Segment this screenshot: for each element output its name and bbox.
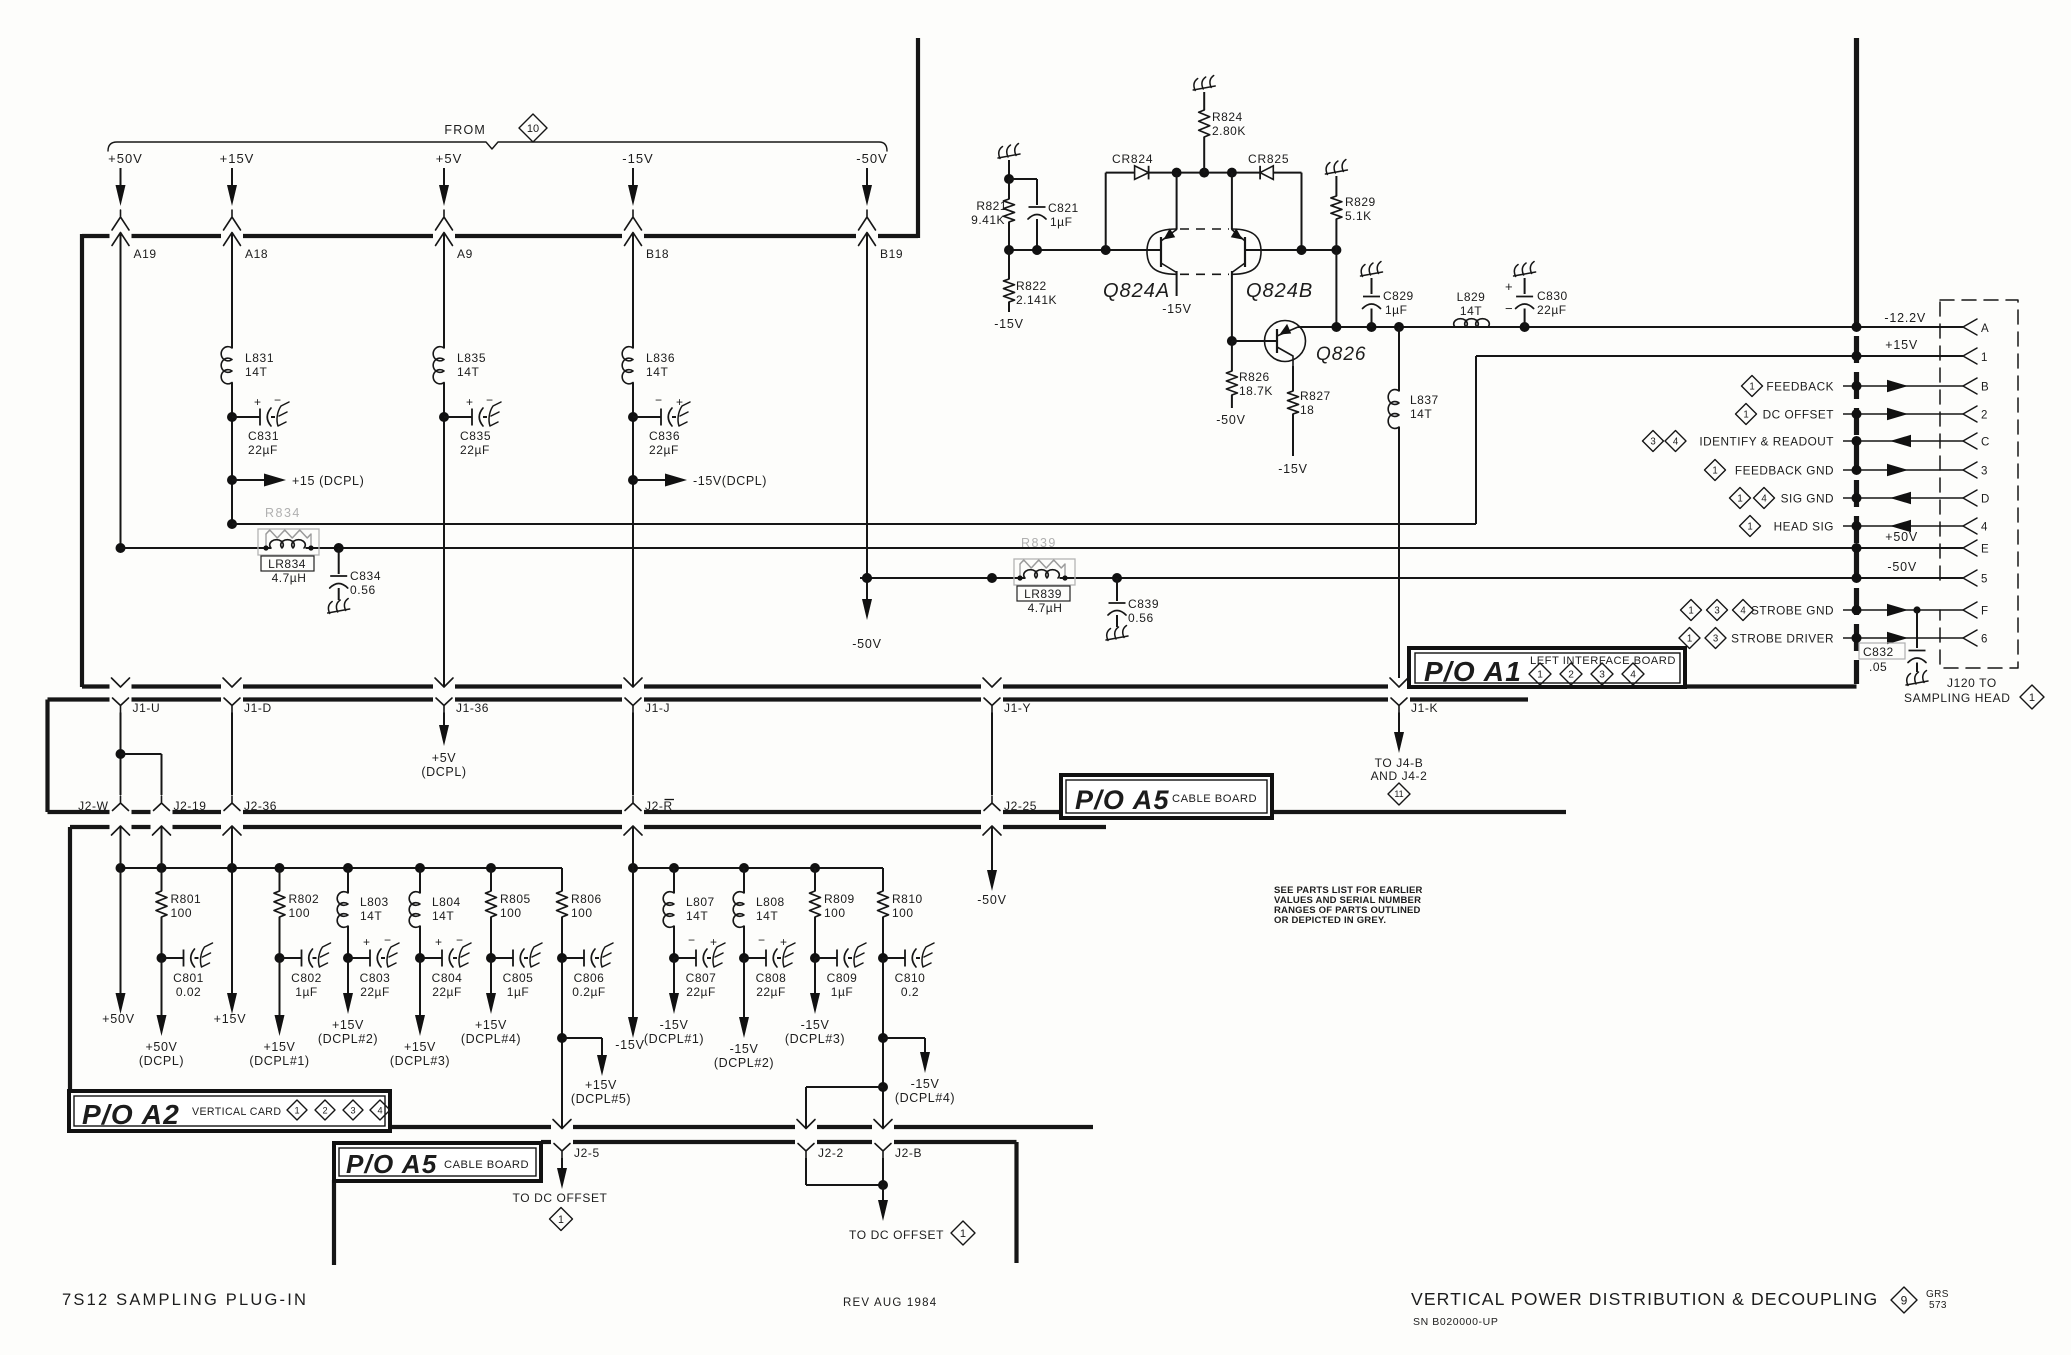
- node -15V (DCPL) tap on B18: [628, 474, 767, 489]
- wire R829 node to -12.2V rail: [1335, 250, 1337, 327]
- svg-text:R802: R802: [289, 892, 320, 906]
- svg-text:-50V: -50V: [1887, 560, 1917, 574]
- svg-text:1µF: 1µF: [507, 985, 529, 999]
- node B19 junction on -50V rail: [862, 573, 872, 583]
- svg-text:3: 3: [350, 1105, 355, 1115]
- svg-text:14T: 14T: [756, 909, 778, 923]
- svg-text:+15V: +15V: [1885, 338, 1918, 352]
- inductor LR834 4.7uH: [261, 540, 314, 585]
- resistor R805 100 / capacitor C805 1uF: [461, 868, 542, 1046]
- node pin B19 on bus: [859, 233, 904, 262]
- svg-text:C806: C806: [574, 971, 605, 985]
- svg-text:-12.2V: -12.2V: [1884, 311, 1926, 325]
- svg-text:0.2µF: 0.2µF: [572, 985, 605, 999]
- svg-text:C802: C802: [291, 971, 322, 985]
- wire A19 +50V column: [120, 233, 122, 549]
- node J1-U branch to J2-19: [116, 749, 162, 795]
- svg-text:R839: R839: [1021, 536, 1057, 550]
- svg-text:P/O A2: P/O A2: [82, 1099, 180, 1130]
- title VERTICAL POWER DISTRIBUTION & DECOUPLING: [1411, 1287, 1949, 1328]
- node J2-R plug arrow into A2: [624, 826, 642, 835]
- svg-text:R824: R824: [1212, 110, 1243, 124]
- wire cable board A5 left edge: [45, 700, 49, 813]
- svg-text:1: 1: [1743, 409, 1748, 420]
- svg-text:J2-R: J2-R: [645, 799, 673, 813]
- svg-text:+: +: [710, 935, 718, 949]
- svg-text:A19: A19: [134, 247, 157, 261]
- svg-text:C829: C829: [1383, 289, 1414, 303]
- svg-text:2: 2: [322, 1105, 327, 1115]
- node +50V output arrow: [102, 868, 135, 1026]
- svg-text:C835: C835: [460, 429, 491, 443]
- wire J2-2 to junction: [806, 1158, 883, 1185]
- svg-text:P/O A5: P/O A5: [346, 1149, 437, 1179]
- node pin 2 DC OFFSET: [1736, 404, 1989, 425]
- svg-text:7S12 SAMPLING PLUG-IN: 7S12 SAMPLING PLUG-IN: [62, 1291, 308, 1309]
- wire P/O A1 bottom edge: [82, 684, 1857, 688]
- node J1-D plug arrow: [223, 678, 241, 687]
- svg-text:C821: C821: [1048, 201, 1079, 215]
- svg-text:-50V: -50V: [852, 637, 882, 651]
- svg-text:1: 1: [1981, 352, 1988, 364]
- svg-text:L804: L804: [432, 895, 461, 909]
- node connector J2-B: [875, 1144, 922, 1161]
- node connector J2-36: [224, 796, 277, 813]
- svg-text:1: 1: [960, 1228, 966, 1240]
- svg-text:SIG GND: SIG GND: [1781, 492, 1834, 506]
- svg-text:+: +: [435, 935, 443, 949]
- wire J2-W column: [120, 826, 122, 868]
- svg-text:573: 573: [1929, 1300, 1947, 1311]
- svg-text:3: 3: [1650, 436, 1655, 447]
- svg-text:(DCPL#3): (DCPL#3): [390, 1054, 450, 1068]
- node J1-U plug arrow: [112, 678, 130, 687]
- node pin A18 on bus: [224, 233, 269, 262]
- node pin A -12.2V: [1852, 311, 1990, 335]
- node connector J1-D: [224, 698, 272, 715]
- svg-text:+15V: +15V: [585, 1078, 617, 1092]
- svg-text:+15V: +15V: [214, 1012, 247, 1026]
- node J1-J plug arrow: [624, 678, 642, 687]
- svg-text:+5V: +5V: [432, 751, 456, 765]
- node J120 TO SAMPLING HEAD label: [1904, 676, 2044, 709]
- svg-text:18.7K: 18.7K: [1239, 384, 1273, 398]
- svg-text:J1-Y: J1-Y: [1004, 701, 1031, 715]
- svg-text:3: 3: [1713, 633, 1718, 644]
- svg-text:D: D: [1981, 494, 1990, 506]
- svg-text:3: 3: [1714, 605, 1719, 616]
- svg-text:22µF: 22µF: [460, 443, 490, 457]
- wire CR825 right leg: [1273, 173, 1301, 250]
- svg-text:R809: R809: [824, 892, 855, 906]
- svg-text:J1-K: J1-K: [1411, 701, 1438, 715]
- svg-text:C832: C832: [1863, 645, 1894, 659]
- svg-text:−: −: [688, 933, 696, 947]
- svg-text:J1-D: J1-D: [244, 701, 272, 715]
- svg-text:4: 4: [1981, 522, 1988, 534]
- svg-text:−: −: [274, 393, 282, 407]
- node R810 branch to -15V DCPL#4: [878, 958, 955, 1129]
- resistor R802 100 / capacitor C802 1uF: [249, 868, 330, 1068]
- node +15V output arrow: [214, 868, 247, 1026]
- svg-text:-15V: -15V: [615, 1038, 645, 1052]
- svg-text:-15V: -15V: [660, 1018, 689, 1032]
- resistor R826 18.7K: [1226, 336, 1272, 408]
- svg-text:22µF: 22µF: [649, 443, 679, 457]
- svg-text:R834: R834: [265, 506, 301, 520]
- svg-text:SAMPLING HEAD: SAMPLING HEAD: [1904, 691, 2011, 705]
- svg-text:2.141K: 2.141K: [1016, 293, 1057, 307]
- svg-text:Q824B: Q824B: [1246, 280, 1313, 302]
- wire left interface board dashed bus: [1854, 38, 1859, 684]
- wire -15V dcpl rail on A2: [628, 863, 883, 873]
- node pin 1 +15V: [1852, 338, 1989, 364]
- svg-text:5: 5: [1981, 574, 1988, 586]
- svg-text:R806: R806: [571, 892, 602, 906]
- inductor L831 14T: [221, 347, 274, 384]
- svg-text:1: 1: [1737, 493, 1742, 504]
- svg-text:C804: C804: [432, 971, 463, 985]
- svg-text:C809: C809: [827, 971, 858, 985]
- svg-text:C801: C801: [173, 971, 204, 985]
- wire A18 +15V column upper: [231, 233, 233, 349]
- node pin E +50V: [1852, 530, 1990, 556]
- node -15V below R822: [994, 317, 1024, 331]
- svg-text:1: 1: [1749, 381, 1754, 392]
- resistor R821 9.41K: [971, 179, 1014, 250]
- svg-text:+50V: +50V: [108, 151, 143, 166]
- node TO J4-B AND J4-2 below J1-K: [1371, 713, 1428, 806]
- svg-text:−: −: [384, 933, 392, 947]
- svg-text:-15V: -15V: [730, 1042, 759, 1056]
- svg-text:1µF: 1µF: [1050, 215, 1072, 229]
- svg-text:E: E: [1981, 544, 1989, 556]
- ground above R824: [1193, 76, 1215, 111]
- svg-text:1µF: 1µF: [831, 985, 853, 999]
- svg-text:J1-36: J1-36: [456, 701, 489, 715]
- title REV AUG 1984: [843, 1297, 937, 1309]
- svg-text:22µF: 22µF: [248, 443, 278, 457]
- svg-text:3: 3: [1599, 670, 1605, 681]
- svg-text:C834: C834: [350, 569, 381, 583]
- inductor LR839 4.7uH: [1017, 570, 1070, 615]
- node -50V supply input: [856, 151, 887, 230]
- svg-text:22µF: 22µF: [432, 985, 462, 999]
- wire vertical card A2 top edge: [70, 825, 1106, 829]
- svg-text:R805: R805: [500, 892, 531, 906]
- node connector J2-2: [798, 1144, 844, 1161]
- wire main interface bus (P/O A1 top edge): [82, 234, 918, 238]
- node J1-36 plug arrow: [435, 678, 453, 687]
- wire B18 -15V column upper: [632, 233, 634, 349]
- node J2-W plug arrow into A2: [112, 826, 130, 835]
- svg-text:-50V: -50V: [1216, 413, 1246, 427]
- svg-text:LEFT INTERFACE BOARD: LEFT INTERFACE BOARD: [1530, 655, 1676, 667]
- svg-text:IDENTIFY & READOUT: IDENTIFY & READOUT: [1699, 435, 1834, 449]
- svg-text:(DCPL#1): (DCPL#1): [644, 1032, 704, 1046]
- svg-text:4.7µH: 4.7µH: [1028, 601, 1063, 615]
- node -15V output arrow: [615, 868, 645, 1052]
- svg-text:A18: A18: [245, 247, 268, 261]
- svg-text:-15V: -15V: [622, 151, 653, 166]
- svg-text:HEAD SIG: HEAD SIG: [1774, 520, 1834, 534]
- node pin B FEEDBACK: [1742, 376, 1990, 397]
- svg-text:L808: L808: [756, 895, 785, 909]
- svg-text:J2-25: J2-25: [1004, 799, 1037, 813]
- svg-text:1: 1: [1688, 605, 1693, 616]
- capacitor C821 1uF: [1028, 179, 1079, 250]
- svg-text:+15V: +15V: [404, 1040, 436, 1054]
- svg-text:+50V: +50V: [1885, 530, 1918, 544]
- svg-text:B19: B19: [880, 247, 903, 261]
- wire Q824A base node row: [1004, 245, 1161, 255]
- node pin 5 -50V: [1852, 560, 1989, 586]
- node J1-K plug arrow: [1390, 678, 1408, 687]
- node connector J1-K: [1391, 698, 1438, 715]
- svg-text:+: +: [1505, 279, 1513, 294]
- svg-text:+15 (DCPL): +15 (DCPL): [292, 474, 364, 488]
- svg-text:VERTICAL CARD: VERTICAL CARD: [192, 1106, 281, 1118]
- wire J2-36 column: [231, 826, 233, 868]
- svg-text:100: 100: [171, 906, 193, 920]
- svg-text:9.41K: 9.41K: [971, 213, 1005, 227]
- node -50V below R826: [1216, 413, 1246, 427]
- wire P/O A1 left edge: [80, 234, 84, 687]
- svg-text:C810: C810: [895, 971, 926, 985]
- resistor R834 (grey, paralleled): [258, 506, 319, 555]
- wire J2-R column: [632, 826, 634, 868]
- capacitor C832 .05: [1859, 610, 1928, 686]
- svg-text:J120 TO: J120 TO: [1947, 676, 1997, 690]
- svg-text:1: 1: [558, 1214, 564, 1226]
- svg-text:(DCPL): (DCPL): [421, 765, 466, 779]
- node pin A19 on bus: [112, 233, 157, 262]
- note SEE PARTS LIST: [1274, 885, 1423, 926]
- svg-text:6: 6: [1981, 634, 1988, 646]
- svg-text:(DCPL#2): (DCPL#2): [318, 1032, 378, 1046]
- node J1-Y junction on -50V rail: [987, 573, 997, 583]
- svg-text:L831: L831: [245, 351, 274, 365]
- node pin D SIG GND: [1730, 488, 1990, 509]
- svg-text:TO J4-B: TO J4-B: [1375, 756, 1424, 770]
- svg-text:14T: 14T: [457, 365, 480, 379]
- svg-text:L835: L835: [457, 351, 486, 365]
- wire A9 +5V column upper: [443, 233, 445, 349]
- node J2-25 plug arrow into A2: [983, 826, 1001, 835]
- svg-text:.05: .05: [1869, 660, 1887, 674]
- svg-text:14T: 14T: [432, 909, 454, 923]
- node connector J2-R: [625, 796, 674, 813]
- svg-text:J2-36: J2-36: [244, 799, 277, 813]
- svg-text:5.1K: 5.1K: [1345, 209, 1372, 223]
- svg-text:+15V: +15V: [220, 151, 255, 166]
- wire J1-J to J2-R: [632, 713, 634, 796]
- svg-text:J1-J: J1-J: [645, 701, 670, 715]
- transistor Q826: [1232, 321, 1367, 367]
- node R821/C821 top: [1004, 174, 1037, 184]
- node +5V supply input: [436, 151, 463, 230]
- svg-text:4: 4: [1673, 436, 1679, 447]
- ground above R821: [998, 144, 1020, 180]
- svg-text:R801: R801: [171, 892, 202, 906]
- wire +15V rail to pin 1: [227, 356, 1963, 529]
- transistor Q824B: [1231, 173, 1313, 341]
- node J2-B plug arrow out of A2: [874, 1120, 892, 1129]
- svg-text:GRS: GRS: [1926, 1289, 1949, 1300]
- capacitor C829 1uF: [1363, 289, 1414, 327]
- inductor L836 14T: [622, 347, 675, 384]
- svg-text:22µF: 22µF: [360, 985, 390, 999]
- node connector J1-Y: [984, 698, 1031, 715]
- svg-text:0.56: 0.56: [1128, 611, 1154, 625]
- wire vertical card A2 bottom edge: [390, 1125, 1093, 1129]
- wire -12.2V rail: [1298, 322, 1963, 332]
- transistor Q824A: [1103, 173, 1192, 316]
- resistor R806 100 / capacitor C806 0.2uF: [557, 868, 614, 999]
- ground above C830: [1514, 262, 1536, 295]
- node -15V below R827: [1278, 462, 1308, 476]
- board label P/O A1 LEFT INTERFACE BOARD: [1409, 648, 1685, 687]
- svg-text:OR DEPICTED IN GREY.: OR DEPICTED IN GREY.: [1274, 915, 1386, 926]
- inductor L808 / capacitor C808 22uF: [714, 868, 795, 1070]
- svg-text:22µF: 22µF: [1537, 303, 1567, 317]
- diode CR825: [1248, 152, 1289, 179]
- capacitor C836 22uF: [628, 393, 690, 457]
- svg-text:F: F: [1981, 606, 1989, 618]
- svg-text:-50V: -50V: [856, 151, 887, 166]
- svg-text:(DCPL): (DCPL): [139, 1054, 184, 1068]
- inductor L807 / capacitor C807 22uF: [644, 868, 725, 1046]
- wire A18 column mid: [231, 383, 233, 525]
- node -15V supply input: [622, 151, 653, 230]
- svg-text:14T: 14T: [360, 909, 382, 923]
- svg-text:-15V: -15V: [1278, 462, 1308, 476]
- wire cable board A5(bottom) right edge: [1014, 1142, 1018, 1263]
- wire +15V dcpl rail on A2: [116, 863, 563, 873]
- node -50V below J2-25: [977, 826, 1007, 907]
- svg-text:2.80K: 2.80K: [1212, 124, 1246, 138]
- svg-text:B18: B18: [646, 247, 669, 261]
- svg-text:A9: A9: [457, 247, 473, 261]
- node C806 branch to +15V DCPL#5: [557, 958, 631, 1129]
- svg-text:AND J4-2: AND J4-2: [1371, 769, 1428, 783]
- wire J1-U to J2-W: [120, 713, 122, 796]
- wire B18 column to J1-J: [632, 383, 634, 688]
- node pin 6 STROBE DRIVER: [1679, 628, 1988, 649]
- svg-text:C807: C807: [686, 971, 717, 985]
- svg-text:DC OFFSET: DC OFFSET: [1763, 408, 1834, 422]
- svg-text:(DCPL#5): (DCPL#5): [571, 1092, 631, 1106]
- node connector J2-5: [554, 1144, 600, 1161]
- resistor R810 100 / capacitor C810 0.2: [878, 868, 935, 999]
- svg-text:L837: L837: [1410, 393, 1439, 407]
- svg-text:1: 1: [1537, 670, 1543, 681]
- capacitor C834 0.56: [328, 543, 381, 614]
- svg-text:REV AUG 1984: REV AUG 1984: [843, 1297, 937, 1309]
- svg-text:+15V: +15V: [475, 1018, 507, 1032]
- node pin A9 on bus: [436, 233, 473, 262]
- svg-text:L803: L803: [360, 895, 389, 909]
- brace FROM <10> power distribution: [108, 114, 887, 151]
- node J2-19 plug arrow into A2: [153, 826, 171, 835]
- svg-text:4: 4: [1761, 493, 1767, 504]
- wire cable board A5(bottom) top edge: [541, 1140, 1017, 1144]
- svg-text:(DCPL#4): (DCPL#4): [461, 1032, 521, 1046]
- svg-text:(DCPL#4): (DCPL#4): [895, 1091, 955, 1105]
- svg-text:9: 9: [1901, 1293, 1908, 1307]
- wire J1-D to J2-36: [231, 713, 233, 796]
- node connector J2-19: [154, 796, 207, 813]
- svg-text:STROBE GND: STROBE GND: [1751, 604, 1834, 618]
- svg-text:VERTICAL POWER DISTRIBUTION &: VERTICAL POWER DISTRIBUTION & DECOUPLING: [1411, 1289, 1878, 1309]
- wire vertical card A2 left edge: [68, 827, 72, 1093]
- svg-text:100: 100: [571, 906, 593, 920]
- svg-text:1µF: 1µF: [295, 985, 317, 999]
- svg-text:0.2: 0.2: [901, 985, 919, 999]
- svg-text:2: 2: [1568, 670, 1574, 681]
- svg-text:−: −: [486, 393, 494, 407]
- svg-text:LR839: LR839: [1024, 587, 1062, 601]
- node pin F STROBE GND: [1681, 600, 1989, 621]
- svg-text:R827: R827: [1300, 389, 1331, 403]
- svg-text:+50V: +50V: [102, 1012, 135, 1026]
- svg-text:-15V: -15V: [994, 317, 1024, 331]
- svg-text:C831: C831: [248, 429, 279, 443]
- wire top-right bus vertical: [916, 38, 920, 238]
- svg-text:100: 100: [500, 906, 522, 920]
- svg-text:-15V: -15V: [801, 1018, 830, 1032]
- svg-text:A: A: [1981, 323, 1989, 335]
- board label P/O A5 CABLE BOARD (middle): [1061, 775, 1272, 818]
- node +50V supply input: [108, 151, 143, 230]
- svg-text:L836: L836: [646, 351, 675, 365]
- svg-text:1: 1: [1747, 521, 1752, 532]
- node connector J1-U: [113, 698, 161, 715]
- connector J120 dashed outline: [1940, 300, 2018, 668]
- wire J1-Y to J2-25: [991, 713, 993, 796]
- node TO DC OFFSET below J2-5: [513, 1158, 608, 1231]
- svg-text:-50V: -50V: [977, 893, 1007, 907]
- resistor R827 18: [1288, 366, 1331, 456]
- svg-text:1: 1: [1687, 633, 1692, 644]
- svg-text:+50V: +50V: [146, 1040, 178, 1054]
- svg-text:10: 10: [527, 123, 539, 135]
- inductor L804 / capacitor C804 22uF: [390, 868, 471, 1068]
- svg-text:-15V(DCPL): -15V(DCPL): [693, 474, 767, 488]
- svg-text:−: −: [1505, 301, 1513, 316]
- svg-text:14T: 14T: [1410, 407, 1432, 421]
- board label P/O A5 CABLE BOARD (bottom): [334, 1143, 541, 1181]
- svg-text:CABLE BOARD: CABLE BOARD: [444, 1159, 529, 1171]
- node +15 (DCPL) tap on A18: [227, 474, 364, 489]
- svg-text:+15V: +15V: [332, 1018, 364, 1032]
- svg-text:L807: L807: [686, 895, 715, 909]
- svg-text:11: 11: [1394, 789, 1403, 799]
- node J2-5 plug arrow out of A2: [553, 1120, 571, 1129]
- node connector J1-36: [436, 698, 489, 715]
- svg-text:4.7µH: 4.7µH: [272, 571, 307, 585]
- svg-text:100: 100: [289, 906, 311, 920]
- svg-text:+5V: +5V: [436, 151, 463, 166]
- node connector J2-25: [984, 796, 1037, 813]
- svg-text:1: 1: [294, 1105, 299, 1115]
- svg-text:4: 4: [1740, 605, 1746, 616]
- svg-text:+: +: [676, 395, 684, 409]
- inductor L837 14T: [1388, 327, 1439, 678]
- svg-text:P/O A1: P/O A1: [1424, 656, 1522, 687]
- title 7S12 SAMPLING PLUG-IN: [62, 1291, 308, 1309]
- node J1-Y plug arrow: [983, 678, 1001, 687]
